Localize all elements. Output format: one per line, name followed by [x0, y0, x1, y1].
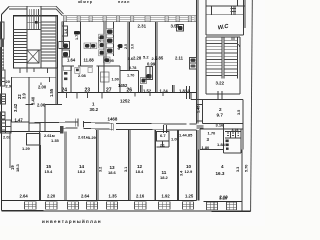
outer wall top double: [9, 6, 56, 9]
left neighbour box3 hatched: [1, 94, 6, 104]
door ticks on south wall: [67, 92, 164, 98]
svg-text:3.5: 3.5: [237, 110, 241, 115]
corridor label: [90, 102, 99, 113]
room22 walls: [12, 77, 57, 122]
svg-text:2.64: 2.64: [20, 194, 29, 199]
hall3 box: [200, 124, 243, 150]
toilet fixtures left cells: [63, 26, 183, 79]
stairs R landing: [206, 79, 240, 95]
svg-text:2.11: 2.11: [175, 56, 184, 61]
landing door ticks: [218, 91, 222, 100]
svg-text:18.4: 18.4: [136, 169, 145, 174]
svg-text:3.2: 3.2: [99, 167, 103, 172]
left neighbour box2: [1, 70, 6, 86]
north wall window sills: [63, 18, 197, 20]
svg-text:1.70: 1.70: [208, 131, 217, 136]
svg-text:3.40: 3.40: [31, 96, 36, 105]
svg-text:2.5: 2.5: [124, 44, 128, 49]
staircase L porch hatch: [29, 9, 38, 16]
hall3 inner cells: [224, 129, 242, 153]
corridor south wall upper line: [29, 122, 197, 124]
svg-text:3.3: 3.3: [236, 167, 240, 172]
staircase L left flight treads: [14, 30, 28, 63]
svg-text:1.45: 1.45: [197, 106, 201, 113]
svg-text:4: 4: [221, 164, 224, 169]
sanitary cell boxes: [62, 42, 70, 49]
hall3 texts: [202, 128, 239, 150]
corridor south wall lower line: [60, 128, 197, 130]
svg-text:1.24: 1.24: [160, 89, 169, 94]
staircase L elevator box: [27, 50, 39, 63]
svg-text:1.92: 1.92: [162, 194, 171, 199]
svg-text:2.28: 2.28: [133, 56, 142, 61]
cell left of room2: [191, 92, 203, 121]
svg-text:3.10: 3.10: [219, 195, 228, 200]
svg-text:4.5: 4.5: [117, 45, 121, 50]
svg-text:3.16: 3.16: [216, 123, 225, 128]
text neighbour 20: [6, 79, 12, 89]
sanitary partition x80: [80, 22, 82, 66]
svg-text:2.31: 2.31: [138, 24, 147, 29]
sanitary mid wall y66: [62, 65, 120, 67]
room19 inner line: [9, 132, 11, 169]
cell fixtures dots: [226, 140, 229, 150]
rotated side texts bottom rooms: [99, 167, 184, 176]
svg-text:1252: 1252: [120, 99, 130, 104]
svg-text:0.99: 0.99: [147, 62, 156, 67]
wall x29: [28, 77, 30, 131]
bottom rooms wall x65: [65, 132, 66, 201]
svg-text:2.9: 2.9: [6, 84, 12, 89]
svg-text:16.3: 16.3: [216, 171, 225, 176]
bottom rooms wall x97: [97, 130, 98, 201]
svg-text:2.64: 2.64: [81, 194, 90, 199]
staircase L upper shaft hatch: [27, 16, 41, 30]
svg-text:3.4: 3.4: [180, 170, 184, 176]
svg-text:9.7: 9.7: [217, 113, 224, 118]
svg-text:6.7: 6.7: [160, 133, 166, 138]
north window wall top line: [63, 15, 197, 17]
svg-text:3.1: 3.1: [124, 167, 128, 172]
texts below corridor wall row: [3, 133, 193, 144]
svg-text:18.6: 18.6: [108, 170, 117, 175]
rotated dims flanking wall x128: [124, 44, 135, 49]
sanitary partition x104 double: [104, 22, 106, 93]
svg-text:15.4: 15.4: [45, 169, 54, 174]
svg-text:2.08: 2.08: [78, 73, 87, 78]
svg-text:1.64: 1.64: [67, 58, 76, 63]
partition x113: [113, 22, 115, 56]
texts sanitary bottom row: [128, 55, 158, 62]
room partition x98.5: [98, 66, 100, 92]
wall y104 segment: [26, 103, 63, 105]
cell tiny marks: [227, 133, 239, 136]
cell toilet: [141, 78, 147, 84]
bottom rooms wall x154: [154, 130, 155, 201]
svg-text:1.29: 1.29: [88, 135, 97, 140]
room4 labels: [216, 164, 225, 176]
texts small dims above south wall: [118, 83, 190, 94]
room24 blobs: [64, 72, 67, 75]
left lower corridor wall: [2, 131, 61, 133]
svg-text:7.6: 7.6: [98, 37, 102, 42]
svg-text:3.42: 3.42: [13, 103, 18, 112]
svg-text:5.2: 5.2: [143, 55, 149, 60]
dim tick: [40, 83, 42, 86]
bottom rooms wall x196: [197, 130, 198, 200]
svg-text:0.78: 0.78: [129, 66, 136, 70]
staircase L outer box: [14, 16, 58, 68]
faint bottom caption: [42, 218, 101, 224]
svg-text:3.16: 3.16: [232, 128, 239, 132]
svg-text:12.9: 12.9: [185, 169, 194, 174]
bottom rooms wall x178: [177, 130, 178, 201]
stairs R small marks: [232, 37, 240, 48]
svg-text:и н в е н т а р н ы: и н в е н т а р н ы й п л а н: [42, 218, 101, 224]
window dim texts: [20, 194, 229, 200]
svg-text:2.16: 2.16: [136, 194, 145, 199]
staircase L center shaft walls: [27, 16, 41, 68]
shower box room27: [150, 67, 153, 80]
svg-text:2: 2: [219, 107, 222, 112]
hall3 divider wall: [223, 124, 225, 154]
svg-text:1.75: 1.75: [75, 33, 79, 40]
svg-text:1.81А: 1.81А: [179, 89, 190, 94]
svg-text:1.35: 1.35: [109, 194, 118, 199]
room partition x70.8: [70, 66, 72, 92]
left neighbour hatch strip: [1, 47, 4, 70]
svg-text:18.2: 18.2: [160, 175, 169, 180]
staircase lobby side walls: [56, 68, 58, 104]
closet below wall: [27, 134, 41, 146]
svg-text:п л а н: п л а н: [118, 0, 129, 4]
svg-text:1.70: 1.70: [127, 74, 134, 78]
outer east boundary: [251, 0, 253, 212]
svg-text:1468: 1468: [108, 117, 118, 122]
right block top box: [206, 0, 245, 6]
left neighbour box5 group: [1, 120, 12, 133]
svg-text:26: 26: [127, 88, 133, 94]
svg-text:1.80: 1.80: [202, 145, 211, 150]
svg-text:1.52: 1.52: [143, 89, 152, 94]
right block hall band: [206, 6, 244, 15]
bottom rooms south wall: [2, 200, 243, 201]
bottom rooms wall x39: [39, 132, 40, 201]
svg-text:1.44.85: 1.44.85: [179, 133, 193, 138]
svg-text:1.25: 1.25: [185, 194, 194, 199]
stairs R treads: [206, 40, 222, 75]
left neighbour box4: [1, 112, 6, 119]
rotated text room22: [13, 88, 54, 112]
bottom rooms wall x129: [129, 130, 130, 201]
svg-text:3.22: 3.22: [216, 81, 225, 86]
svg-text:1.55: 1.55: [49, 88, 54, 97]
bottom outer wall: [2, 210, 251, 213]
east room wall double: [197, 0, 199, 124]
svg-text:1.47: 1.47: [15, 118, 24, 123]
staircase L right wall double: [55, 16, 57, 68]
WC room: [206, 0, 245, 35]
vestibule box: [29, 123, 40, 132]
stairs R center wall: [222, 37, 224, 79]
niche below wall: [64, 66, 72, 71]
texts upper rooms dims row: [67, 56, 184, 67]
bottom windows: [25, 202, 237, 210]
texts room area labels: [62, 88, 133, 94]
svg-text:2.06: 2.06: [37, 103, 46, 108]
staircase L shaft cross line: [27, 30, 41, 51]
sanitary block left wall double: [62, 22, 64, 93]
upper rooms south wall: [57, 91, 197, 93]
left wall pier dark: [60, 126, 64, 134]
svg-text:1.35: 1.35: [51, 138, 60, 143]
room2 box: [203, 100, 244, 124]
left neighbour strip box1: [1, 22, 5, 39]
outer wall top-left chamfer: [2, 7, 10, 15]
staircase L door ticks bottom: [20, 68, 50, 82]
svg-text:2.00: 2.00: [38, 85, 47, 90]
svg-text:18.3: 18.3: [15, 163, 20, 172]
svg-text:11.88: 11.88: [84, 58, 95, 63]
svg-text:18.2: 18.2: [78, 169, 87, 174]
svg-text:27: 27: [106, 88, 112, 94]
room23 stove boxes: [75, 68, 80, 74]
svg-text:об м е р: об м е р: [78, 0, 92, 4]
upper rooms partition x128 double: [128, 22, 130, 71]
svg-text:3.9: 3.9: [22, 93, 27, 99]
left neighbour box1 dark: [1, 39, 5, 47]
outer wall right chamfer: [56, 6, 64, 16]
svg-text:5.70: 5.70: [245, 165, 249, 172]
svg-text:1.6: 1.6: [64, 29, 68, 34]
right block connector hatch: [231, 7, 237, 15]
rotated texts sanitary: [64, 29, 121, 50]
room27 box: [101, 72, 110, 82]
corridor door jambs: [76, 119, 167, 134]
svg-text:23: 23: [85, 88, 91, 94]
room4 walls: [199, 150, 242, 212]
staircase L right flight treads: [41, 22, 56, 61]
svg-text:1.00: 1.00: [112, 78, 119, 82]
door marks corridor to hall3: [197, 126, 204, 128]
door jamb x141: [141, 85, 143, 92]
door jamb x173: [173, 85, 175, 92]
texts top room dims: [138, 24, 180, 29]
room partition x120: [119, 66, 121, 92]
svg-text:1.29: 1.29: [22, 146, 31, 151]
svg-text:2.6: 2.6: [128, 56, 134, 61]
svg-text:3.0: 3.0: [131, 44, 135, 49]
svg-text:2.20: 2.20: [47, 194, 56, 199]
sanitary niche: [62, 26, 68, 36]
room11 closet: [157, 132, 170, 142]
svg-text:30.2: 30.2: [90, 107, 99, 112]
staircase L porch: [27, 6, 41, 16]
outer wall left: [1, 15, 3, 211]
stairs R box: [206, 35, 244, 79]
north wall piers: [64, 16, 192, 22]
svg-text:2.1: 2.1: [160, 144, 165, 148]
fixture outlines: [84, 29, 114, 63]
upper rooms partition x156 double: [156, 22, 158, 93]
wall x45: [44, 104, 46, 131]
room labels bottom: [10, 163, 193, 180]
cell wall y70.5: [120, 70, 139, 72]
door opening right: [187, 86, 190, 99]
room2 labels: [217, 107, 224, 118]
svg-text:24: 24: [62, 88, 68, 94]
staircase L elevator cross: [27, 50, 39, 63]
svg-text:1452: 1452: [118, 83, 128, 88]
north window wall bottom line: [62, 21, 197, 23]
cell wall x138.5: [138, 71, 140, 93]
faint top caption: [78, 0, 129, 4]
svg-text:3.59: 3.59: [171, 24, 180, 29]
svg-text:2.6: 2.6: [152, 56, 158, 61]
svg-text:1.88: 1.88: [217, 142, 226, 147]
